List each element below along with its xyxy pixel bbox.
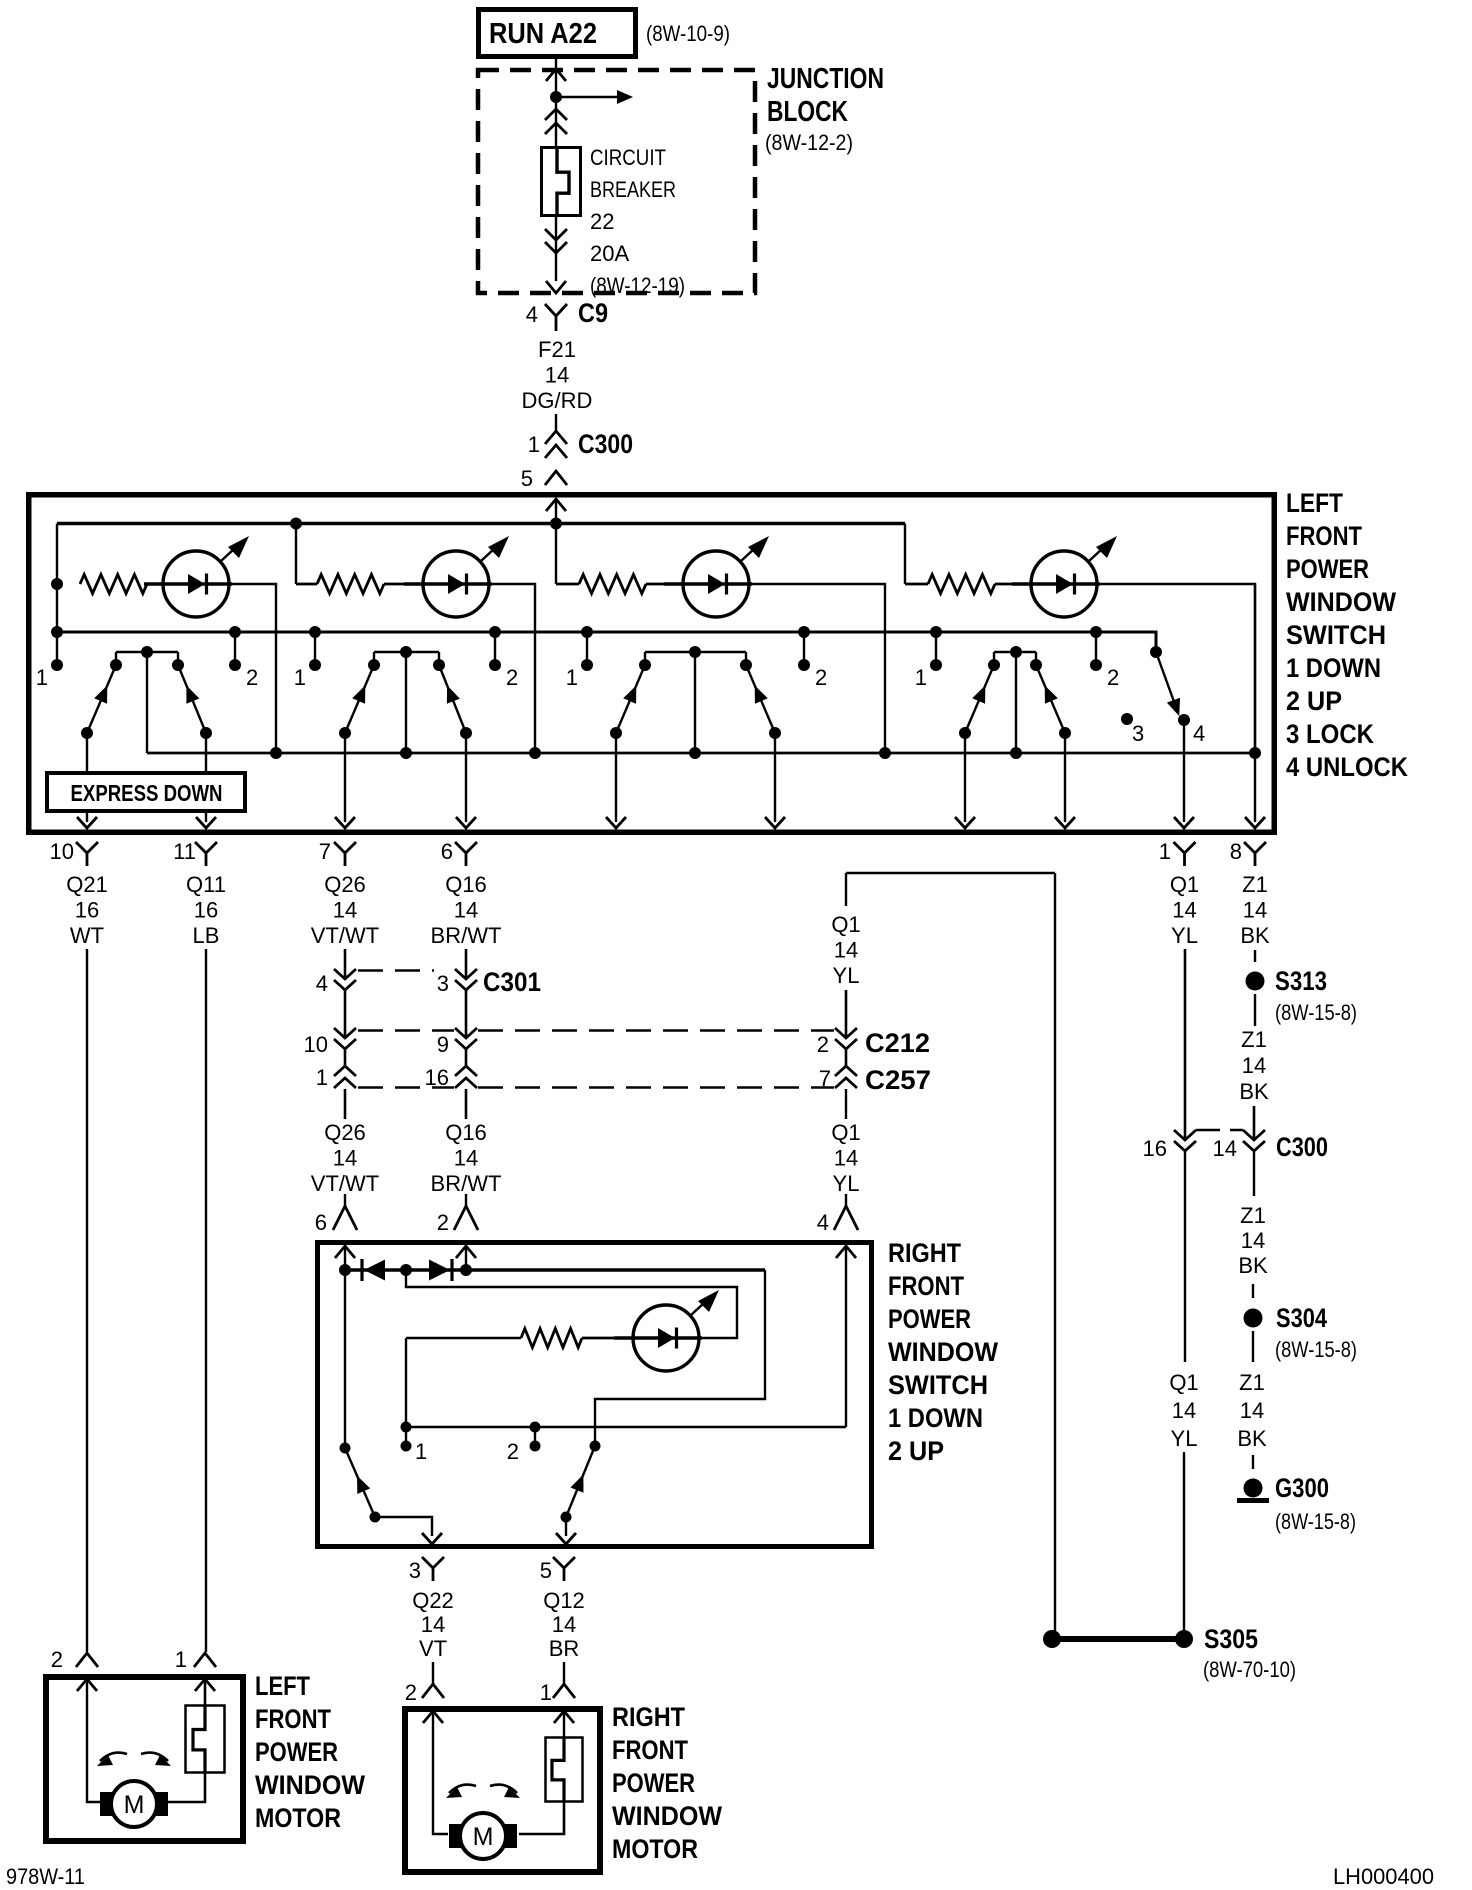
connector C300 pin 14 (1243, 1130, 1265, 1140)
battery feed bus (57, 522, 905, 525)
svg-text:2: 2 (51, 1647, 63, 1672)
right motor pin2 wire (433, 1711, 448, 1834)
right switch rail (406, 1426, 846, 1428)
svg-text:YL: YL (1171, 1426, 1198, 1451)
express down module box (47, 773, 245, 811)
switch arm left group 4 (965, 665, 994, 733)
arrow down at junction block bottom edge (546, 281, 566, 293)
switch rocker group 4 (994, 651, 1036, 653)
svg-text:Q22: Q22 (412, 1588, 454, 1613)
right motor rotation arrows (449, 1785, 476, 1793)
right motor pin1 wire lower (519, 1802, 564, 1834)
svg-text:BR/WT: BR/WT (431, 923, 502, 948)
feed wire entering switch box (546, 499, 566, 511)
rail junction dot x=885 (879, 747, 891, 759)
svg-text:2: 2 (437, 1210, 449, 1235)
switch pin 7 connector (334, 842, 356, 853)
svg-text:1: 1 (175, 1647, 187, 1672)
contact 2 stub x=495 (494, 632, 496, 665)
wire Z1 below C300 (1253, 1152, 1255, 1196)
svg-text:LH000400: LH000400 (1333, 1864, 1434, 1889)
switch pin 11 connector (195, 842, 217, 853)
svg-text:S313: S313 (1275, 966, 1327, 996)
switch arm left group 3 (616, 665, 645, 733)
svg-text:POWER: POWER (255, 1737, 338, 1767)
connector C257 pin 7 (835, 1066, 857, 1076)
wire group1 left arm to express down (86, 733, 88, 771)
svg-text:BREAKER: BREAKER (590, 177, 676, 202)
svg-text:5: 5 (540, 1558, 552, 1583)
contact 2 stub x=1096 (1095, 632, 1097, 665)
resistor group 4 (928, 575, 995, 594)
svg-text:2: 2 (507, 1439, 519, 1464)
svg-text:MOTOR: MOTOR (612, 1834, 698, 1864)
svg-text:Z1: Z1 (1239, 1370, 1265, 1395)
mid bus junction dot x=1096 (1090, 626, 1102, 638)
mid bus junction dot x=315 (309, 626, 321, 638)
svg-text:S305: S305 (1204, 1624, 1258, 1654)
switch arm left group 1 (87, 665, 116, 733)
svg-text:14: 14 (1172, 897, 1196, 922)
switch common bus (mid) (57, 632, 1156, 650)
wire Q1 to C212 (845, 990, 848, 1038)
wire Q22 to right motor (432, 1662, 434, 1684)
svg-text:Q1: Q1 (1169, 1370, 1198, 1395)
rail junction dot x=406 (400, 747, 412, 759)
svg-text:Z1: Z1 (1242, 872, 1268, 897)
svg-text:6: 6 (441, 839, 453, 864)
unlock contact 4 (1178, 714, 1190, 726)
mid bus junction dot x=235 (229, 626, 241, 638)
group 2 feed drop (295, 524, 297, 585)
svg-text:BK: BK (1237, 1426, 1267, 1451)
svg-text:2 UP: 2 UP (888, 1436, 944, 1466)
lamp group 2 (384, 583, 423, 586)
svg-text:YL: YL (833, 1171, 860, 1196)
svg-text:1: 1 (36, 665, 48, 690)
svg-text:14: 14 (1243, 897, 1267, 922)
riser wire to S305 (1054, 873, 1056, 1631)
group3 outputs to box edge (615, 733, 617, 822)
splice S304 (1244, 1309, 1263, 1328)
resistor drop to rail (405, 1338, 407, 1427)
svg-text:S304: S304 (1276, 1303, 1327, 1333)
svg-text:3: 3 (1132, 721, 1144, 746)
connector C212 pin 10 (334, 1028, 356, 1038)
lamp output drop group 2 (492, 584, 535, 753)
svg-text:CIRCUIT: CIRCUIT (590, 145, 666, 170)
svg-text:(8W-15-8): (8W-15-8) (1275, 1000, 1357, 1025)
svg-text:4: 4 (817, 1210, 829, 1235)
resistor group 1 (80, 575, 147, 594)
arrow inside left motor pin 1 (195, 1679, 215, 1691)
wire F21 segment (555, 414, 557, 431)
switch pin 1 connector (1174, 842, 1196, 853)
svg-text:WINDOW: WINDOW (888, 1337, 998, 1367)
svg-text:POWER: POWER (612, 1768, 695, 1798)
connector C257 pin 16 (455, 1066, 477, 1076)
svg-text:14: 14 (454, 897, 478, 922)
svg-text:Q16: Q16 (445, 872, 487, 897)
lamp output drop group 1 (232, 584, 276, 753)
svg-text:SWITCH: SWITCH (888, 1370, 988, 1400)
svg-text:1: 1 (915, 665, 927, 690)
left motor M (111, 1781, 157, 1827)
switch common drop group 2 (405, 652, 407, 753)
svg-text:YL: YL (1171, 923, 1198, 948)
svg-text:WINDOW: WINDOW (255, 1770, 365, 1800)
mid bus junction dot x=495 (489, 626, 501, 638)
svg-text:C300: C300 (1276, 1132, 1328, 1162)
right switch pin 4 entry (845, 1194, 847, 1206)
connector C257 pin 1 (334, 1066, 356, 1076)
svg-text:22: 22 (590, 209, 614, 234)
svg-text:M: M (473, 1823, 494, 1851)
svg-text:11: 11 (173, 839, 196, 864)
C300 dashed tie (1196, 1129, 1243, 1131)
svg-text:5: 5 (521, 466, 533, 491)
group 1 feed drop (56, 524, 58, 666)
switch pin 6 connector (455, 842, 477, 853)
svg-text:LEFT: LEFT (1286, 488, 1343, 518)
wire segment C212 to C257 x=345 (344, 1049, 347, 1066)
svg-text:RIGHT: RIGHT (612, 1702, 685, 1732)
svg-text:C9: C9 (578, 298, 608, 328)
switch arm left group 2 (345, 665, 374, 733)
rail junction dot x=1255 (1249, 747, 1261, 759)
wire Q1 below C257 (845, 1089, 847, 1119)
svg-text:RUN A22: RUN A22 (489, 18, 597, 50)
wire from breaker to C9 (555, 217, 557, 281)
lamp group 4 (995, 583, 1031, 586)
group 3 feed drop (555, 524, 557, 584)
svg-text:16: 16 (1143, 1136, 1167, 1161)
svg-text:978W-11: 978W-11 (6, 1864, 85, 1889)
svg-text:14: 14 (1172, 1398, 1196, 1423)
wire Q1 to splice S305 (1183, 1452, 1185, 1631)
svg-text:Q1: Q1 (831, 912, 860, 937)
contact 1 stub x=57 (51, 659, 63, 671)
svg-text:14: 14 (333, 897, 357, 922)
arrow inside right box pin 4 (836, 1246, 856, 1258)
right box pin2 wire (465, 1246, 467, 1270)
wire Z1 to C300 (1253, 1106, 1256, 1140)
svg-text:4 UNLOCK: 4 UNLOCK (1286, 752, 1408, 782)
svg-text:BLOCK: BLOCK (767, 96, 848, 128)
contact 2 stub x=804 (803, 632, 805, 665)
svg-text:7: 7 (319, 839, 331, 864)
svg-text:4: 4 (526, 302, 538, 327)
rail junction dot x=535 (529, 747, 541, 759)
right switch arm right (566, 1446, 595, 1517)
group4 outputs to box edge (964, 733, 966, 822)
svg-text:VT/WT: VT/WT (311, 1171, 379, 1196)
bus wrap to up contact (595, 1270, 765, 1446)
resistor group 2 (317, 575, 384, 594)
svg-text:(8W-15-8): (8W-15-8) (1275, 1509, 1356, 1534)
C212 dashed tie (358, 1029, 454, 1032)
right box pin6 wire to diode bus (344, 1246, 346, 1270)
svg-text:BK: BK (1239, 1079, 1269, 1104)
connector C301 pin 3 (455, 969, 477, 979)
left motor breaker (186, 1706, 225, 1773)
left motor pin 2 connector (76, 1653, 98, 1667)
svg-text:2: 2 (246, 665, 258, 690)
connector C300 pin 1 / pin 5 (545, 431, 567, 444)
svg-text:EXPRESS DOWN: EXPRESS DOWN (71, 780, 223, 806)
express down output wires to pins 10 11 (86, 813, 88, 822)
svg-text:LB: LB (193, 923, 220, 948)
svg-text:8: 8 (1230, 839, 1242, 864)
switch pin 8 connector (1244, 842, 1266, 853)
svg-text:1: 1 (1159, 839, 1171, 864)
contact 1 stub x=315 (314, 632, 316, 665)
wire segment C301 to C212 x=345 (344, 990, 347, 1038)
svg-text:(8W-12-2): (8W-12-2) (765, 130, 853, 155)
rail output to pin 8 (1254, 584, 1256, 822)
svg-text:BR/WT: BR/WT (431, 1171, 502, 1196)
wire Q21 to left motor (86, 949, 88, 1652)
splice S313 (1246, 972, 1265, 991)
svg-text:(8W-10-9): (8W-10-9) (646, 21, 730, 46)
wire Q1 C212 to C257 (845, 1049, 848, 1066)
svg-text:Z1: Z1 (1241, 1027, 1267, 1052)
unlock output to pin 1 (1183, 720, 1185, 822)
svg-text:C212: C212 (865, 1028, 930, 1058)
switch common drop group 4 (1015, 652, 1017, 753)
left front power window switch box (29, 495, 1275, 833)
right switch arm left (345, 1448, 375, 1517)
lamp output drop group 4 (1100, 584, 1255, 753)
feed arrow to other circuits (556, 96, 617, 99)
arrow inside right motor pin 2 (423, 1711, 443, 1723)
switch common drop group 1 (146, 652, 148, 753)
svg-text:14: 14 (1241, 1228, 1265, 1253)
wire group1 right arm to express down (205, 733, 207, 771)
svg-text:4: 4 (316, 971, 328, 996)
C301 dashed tie (358, 969, 434, 972)
svg-text:2 UP: 2 UP (1286, 686, 1342, 716)
svg-text:4: 4 (1193, 721, 1205, 746)
svg-text:3 LOCK: 3 LOCK (1286, 719, 1374, 749)
mid bus junction dot x=804 (798, 626, 810, 638)
svg-text:2: 2 (405, 1680, 417, 1705)
switch arm right group 2 (439, 665, 466, 733)
group2 outputs to pins 7 6 (344, 733, 346, 822)
svg-text:1: 1 (316, 1065, 328, 1090)
diode D1 (points left) (360, 1259, 363, 1281)
svg-text:14: 14 (421, 1612, 445, 1637)
right motor breaker (546, 1738, 583, 1802)
svg-text:BK: BK (1240, 923, 1270, 948)
svg-text:JUNCTION: JUNCTION (767, 63, 884, 95)
svg-text:F21: F21 (538, 337, 576, 362)
svg-text:14: 14 (834, 937, 858, 962)
diode D2 (points right) (429, 1260, 450, 1281)
wire Z1 below S313 (1254, 994, 1256, 1026)
switch rocker group 2 (374, 651, 439, 653)
svg-text:C257: C257 (865, 1065, 931, 1095)
svg-text:1: 1 (294, 665, 306, 690)
svg-text:Q21: Q21 (66, 872, 108, 897)
svg-text:Q12: Q12 (543, 1588, 585, 1613)
svg-text:RIGHT: RIGHT (888, 1238, 961, 1268)
svg-text:LEFT: LEFT (255, 1671, 310, 1701)
lock-unlock pivot dot (1150, 646, 1162, 658)
svg-text:POWER: POWER (1286, 554, 1369, 584)
wire Z1 stub to S304 (1252, 1284, 1254, 1298)
wire Z1 stub to G300 (1252, 1455, 1254, 1469)
wire segment above C301 x=466 (465, 949, 468, 979)
svg-text:SWITCH: SWITCH (1286, 620, 1386, 650)
connector chevrons below feed node (545, 109, 567, 120)
wire segment C212 to C257 x=466 (465, 1049, 468, 1066)
diode bus (345, 1268, 765, 1271)
svg-text:Z1: Z1 (1240, 1203, 1266, 1228)
circuit breaker 22 20A (542, 148, 581, 216)
svg-text:14: 14 (333, 1146, 357, 1171)
svg-text:BK: BK (1238, 1253, 1268, 1278)
svg-text:Q1: Q1 (1170, 872, 1199, 897)
wire segment below C257 x=345 (344, 1089, 347, 1119)
contact 1 stub x=936 (935, 632, 937, 665)
lamp group 3 (646, 583, 683, 586)
right box pin4 wire down right side (845, 1246, 847, 1427)
lamp output drop group 3 (752, 584, 885, 753)
switch arm right group 3 (746, 665, 775, 733)
svg-text:Q1: Q1 (831, 1120, 860, 1145)
svg-text:FRONT: FRONT (888, 1271, 964, 1301)
connector C212 pin 9 (455, 1028, 477, 1038)
svg-text:MOTOR: MOTOR (255, 1803, 341, 1833)
svg-text:1: 1 (528, 432, 540, 457)
svg-text:(8W-12-19): (8W-12-19) (590, 273, 685, 298)
right switch pin 3 connector (422, 1557, 444, 1568)
svg-text:1 DOWN: 1 DOWN (1286, 653, 1381, 683)
right switch contact 1 (405, 1427, 407, 1446)
wire Q12 to right motor (563, 1662, 565, 1684)
svg-text:14: 14 (545, 362, 569, 387)
right switch left wire to contact (344, 1270, 346, 1448)
wire Q1 below C300 (1184, 1152, 1186, 1362)
svg-text:2: 2 (815, 665, 827, 690)
wire segment above C301 x=345 (344, 949, 347, 979)
svg-text:BR: BR (549, 1636, 580, 1661)
svg-text:16: 16 (194, 897, 218, 922)
wire segment C301 to C212 x=466 (465, 990, 468, 1038)
right switch arm right output (565, 1517, 567, 1536)
svg-text:2: 2 (817, 1032, 829, 1057)
svg-text:POWER: POWER (888, 1304, 971, 1334)
right switch pin 2 entry (465, 1194, 467, 1206)
svg-text:16: 16 (75, 897, 99, 922)
svg-text:WINDOW: WINDOW (612, 1801, 722, 1831)
switch pin 10 connector (76, 842, 98, 853)
svg-text:M: M (124, 1791, 145, 1819)
svg-text:FRONT: FRONT (1286, 521, 1362, 551)
C257 dashed tie (358, 1086, 454, 1089)
right front power window switch box (318, 1243, 872, 1547)
svg-text:WINDOW: WINDOW (1286, 587, 1396, 617)
svg-text:14: 14 (1242, 1053, 1266, 1078)
wire from RUN A22 into junction block (555, 59, 557, 146)
lamp feed wrap (406, 1270, 737, 1338)
svg-text:Q26: Q26 (324, 872, 366, 897)
ground G300 (1244, 1479, 1263, 1498)
svg-text:20A: 20A (590, 241, 629, 266)
svg-text:(8W-70-10): (8W-70-10) (1203, 1657, 1296, 1682)
group 4 feed drop (904, 524, 906, 585)
svg-text:14: 14 (1213, 1136, 1237, 1161)
switch rocker group 3 (645, 651, 746, 653)
arrow inside left motor pin 2 (77, 1679, 97, 1691)
arrow inside right box pin 2 (456, 1246, 476, 1258)
svg-text:10: 10 (304, 1032, 328, 1057)
left motor pin2 wire (87, 1679, 100, 1802)
svg-text:7: 7 (819, 1066, 831, 1091)
mid bus junction dot x=587 (581, 626, 593, 638)
common output rail (147, 752, 1255, 755)
bus junction dot group2 (290, 518, 302, 530)
svg-text:Q26: Q26 (324, 1120, 366, 1145)
connector C212 pin 2 (835, 1028, 857, 1038)
svg-text:1 DOWN: 1 DOWN (888, 1403, 983, 1433)
left front power window motor box (46, 1677, 243, 1841)
switch arm right group 4 (1036, 665, 1065, 733)
wire Q11 to left motor (205, 949, 207, 1652)
connector C9 pin 4 (545, 304, 567, 316)
svg-text:14: 14 (834, 1146, 858, 1171)
svg-text:DG/RD: DG/RD (522, 388, 593, 413)
right switch lamp (633, 1305, 699, 1371)
svg-text:6: 6 (315, 1210, 327, 1235)
right motor M (460, 1813, 506, 1859)
chevrons below breaker (545, 229, 567, 240)
svg-text:YL: YL (833, 963, 860, 988)
svg-text:C301: C301 (483, 967, 541, 997)
svg-text:(8W-15-8): (8W-15-8) (1275, 1337, 1357, 1362)
svg-text:10: 10 (50, 839, 74, 864)
right switch pin 6 entry (344, 1194, 346, 1206)
svg-text:1: 1 (415, 1439, 427, 1464)
splice S305 (1043, 1630, 1061, 1648)
switch rocker group 1 (116, 651, 178, 653)
svg-text:Q16: Q16 (445, 1120, 487, 1145)
lock contact 3 (1121, 713, 1133, 725)
svg-text:Q11: Q11 (186, 872, 226, 897)
right switch resistor (582, 1337, 631, 1340)
wire segment below C257 x=466 (465, 1089, 468, 1119)
fuse feed box RUN A22 (479, 10, 636, 57)
bus junction dot at feed (550, 518, 562, 530)
lock-unlock switch arm (1156, 652, 1177, 710)
svg-text:3: 3 (437, 971, 449, 996)
junction dot feed node (550, 91, 562, 103)
svg-text:14: 14 (454, 1146, 478, 1171)
switch arm right group 1 (178, 665, 206, 733)
left motor pin 1 connector (194, 1653, 216, 1667)
svg-text:2: 2 (506, 665, 518, 690)
svg-text:1: 1 (540, 1680, 552, 1705)
svg-text:FRONT: FRONT (612, 1735, 688, 1765)
splice S313 lead (1254, 950, 1256, 962)
right switch arm left output (375, 1517, 432, 1536)
svg-text:C300: C300 (578, 429, 633, 459)
contact 2 stub x=235 (234, 632, 236, 665)
arrow up at junction block top (546, 69, 566, 81)
wire Z1 below S304 (1252, 1331, 1254, 1362)
svg-text:2: 2 (1107, 665, 1119, 690)
